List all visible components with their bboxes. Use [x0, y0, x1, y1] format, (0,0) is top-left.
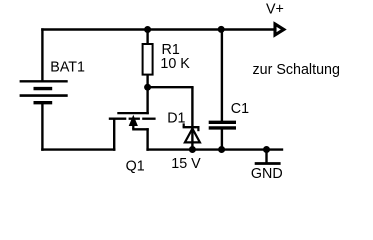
ground GND — [255, 150, 281, 164]
D1 cathode wire — [191, 87, 193, 127]
svg-text:15 V: 15 V — [171, 156, 201, 172]
wire: C1 top lead — [221, 30, 223, 122]
wire: bottom left (battery to Q1 drain) — [41, 148, 115, 150]
Q1 gate wire up to R1 node — [146, 87, 148, 114]
Q1 channel dashes — [109, 118, 127, 120]
wire: battery positive lead — [41, 28, 43, 81]
Q1 gate bar — [117, 112, 149, 114]
wire: gate node to D1 — [148, 86, 194, 88]
diode D1 (zener, cathode up) — [183, 87, 200, 150]
svg-text:Q1: Q1 — [126, 158, 145, 174]
svg-text:D1: D1 — [167, 111, 185, 127]
D1 triangle (anode, pointing up) — [185, 129, 200, 143]
wire: top V+ rail — [41, 28, 275, 30]
svg-text:C1: C1 — [231, 101, 249, 117]
Q1 drain lead — [113, 118, 115, 151]
svg-text:V+: V+ — [266, 2, 284, 18]
Q1 body arrow — [129, 115, 138, 126]
svg-text:GND: GND — [251, 166, 283, 182]
node: R1 top junction dot — [144, 26, 151, 33]
D1 anode wire — [191, 128, 193, 150]
wire: R1 bottom lead — [146, 75, 148, 89]
node: GND junction dot — [263, 146, 270, 153]
node: D1 bottom junction dot — [189, 146, 196, 153]
wire: battery negative lead down — [41, 103, 43, 151]
svg-text:zur Schaltung: zur Schaltung — [253, 62, 340, 78]
battery BAT1 — [20, 81, 68, 102]
svg-text:10 K: 10 K — [160, 56, 190, 72]
node: C1 top junction dot — [218, 26, 225, 33]
D1 cathode bar with zener hooks — [183, 126, 200, 128]
node: R1/gate junction dot — [144, 84, 151, 91]
capacitor C1 — [209, 122, 236, 128]
wire: bottom rail (Q1 source to GND) — [146, 148, 283, 150]
wire: C1 bottom lead — [221, 130, 223, 151]
wire: R1 top lead — [146, 30, 148, 45]
Q1 body stub — [132, 124, 134, 129]
transistor Q1 — [109, 87, 156, 151]
node: C1 bottom junction dot — [218, 146, 225, 153]
resistor R1 — [143, 44, 153, 75]
Q1 source lead — [146, 128, 148, 151]
svg-text:BAT1: BAT1 — [50, 60, 85, 76]
node V+ arrow — [275, 24, 284, 35]
